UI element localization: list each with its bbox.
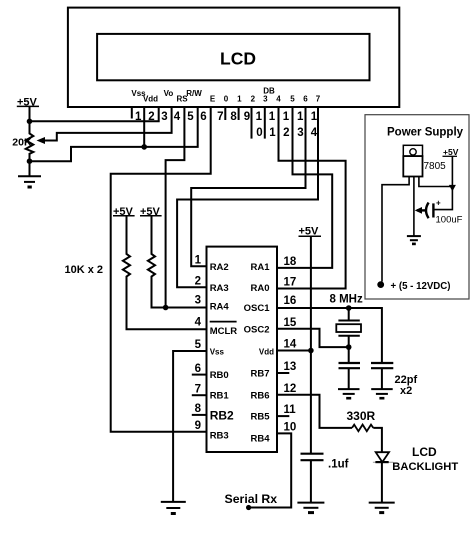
svg-text:4: 4 [174,111,181,123]
svg-text:3: 3 [297,127,303,139]
svg-text:RA4: RA4 [210,302,230,313]
wire RB6 pin12 to resistor 330R [277,395,352,428]
ground pot [18,176,41,187]
node RA4 junction [163,305,169,311]
LCD module outer box [68,8,399,107]
svg-text:Vdd: Vdd [259,348,274,357]
node crystal bottom junction [346,344,352,350]
ground C1 [338,389,360,398]
LCD pin numbers row1 [135,111,318,123]
svg-text:6: 6 [200,111,206,123]
wire 7805 output to +5V [419,157,453,210]
MCLR overbar [210,321,237,323]
LCD pin header separators [132,107,265,139]
wire +5V rail [310,236,312,454]
svg-text:Serial Rx: Serial Rx [225,492,278,506]
input terminal bullet [377,281,384,288]
wire pot bottom to ground [29,161,31,176]
wire 7805 ground lead [413,177,415,237]
+5V label pullup 2 [140,206,162,218]
svg-text:1: 1 [283,111,290,123]
svg-text:5: 5 [187,111,194,123]
svg-text:6: 6 [303,95,308,104]
ground 7805 [407,236,421,244]
svg-text:LCD: LCD [220,48,256,68]
svg-text:10K x 2: 10K x 2 [65,264,104,276]
svg-text:11: 11 [284,404,297,416]
node Vss junction [141,144,147,150]
ground C2 [371,389,393,398]
22pf x2 value label [395,374,418,397]
wire OSC2 pin15 to crystal bottom [277,329,349,347]
PIC chip U1 [207,247,278,452]
svg-text:RB3: RB3 [210,431,229,442]
svg-text:Vo: Vo [164,89,174,98]
svg-text:12: 12 [284,383,297,395]
wire OSC1 pin16 [277,308,382,363]
svg-text:20K: 20K [12,136,32,148]
svg-text:R/W: R/W [186,89,202,98]
svg-text:x2: x2 [400,385,412,397]
svg-text:LCD: LCD [412,445,437,459]
svg-text:8: 8 [195,403,202,415]
svg-text:4: 4 [311,127,318,139]
svg-text:1: 1 [195,255,202,267]
svg-text:RB2: RB2 [210,409,234,423]
wire pot bottom to LCD pin1 Vss and pin5 R/W [30,107,198,161]
wire +5V to pot top [29,107,31,121]
node Vdd junction [308,348,314,354]
svg-text:Power Supply: Power Supply [387,127,464,139]
wire 7805 input lead [382,177,409,282]
svg-text:RB7: RB7 [250,369,269,380]
capacitor 22pf C1 [339,347,361,389]
svg-text:1: 1 [256,111,263,123]
svg-text:1: 1 [269,127,276,139]
chip left pin labels [210,262,238,442]
ground C3 [297,503,324,513]
wire Vss pin5 to ground [173,351,206,502]
pin 7 stub [192,394,207,396]
svg-text:3: 3 [161,111,167,123]
svg-text:RB6: RB6 [250,391,269,402]
svg-text:18: 18 [284,256,297,268]
svg-text:1: 1 [297,111,304,123]
chip right pin labels [244,262,274,445]
svg-text:7: 7 [217,111,223,123]
LCD display inner box [97,34,369,80]
svg-text:3: 3 [195,295,201,307]
wire LCD pin14 DB7 to chip RA3 [177,107,318,287]
LCD BACKLIGHT label [392,445,458,473]
svg-text:2: 2 [195,276,201,288]
wire LCD pin4 RS to chip RA4 [166,107,185,308]
svg-text:1: 1 [237,95,242,104]
node crystal top junction [346,305,352,311]
svg-text:0: 0 [224,95,229,104]
svg-text:OSC1: OSC1 [244,303,271,314]
capacitor .1uf C3 [301,454,349,503]
pin 8 stub [192,414,207,416]
svg-text:13: 13 [284,361,297,373]
wire pot top to LCD pin2 Vdd [30,107,159,121]
svg-text:E: E [210,95,216,104]
pin 11 stub [277,415,289,417]
svg-text:+ (5 - 12VDC): + (5 - 12VDC) [391,281,451,292]
svg-text:4: 4 [195,317,202,329]
svg-text:+5V: +5V [443,147,459,157]
wire 330R to LED [373,428,382,452]
LCD pin numbers row2 [256,127,318,139]
svg-text:RB4: RB4 [250,434,270,445]
svg-text:RB0: RB0 [210,370,229,381]
ground Vss [161,502,186,514]
svg-text:.1uf: .1uf [328,459,349,471]
svg-text:9: 9 [195,420,201,432]
svg-text:8 MHz: 8 MHz [330,293,363,305]
wire RA4 junction to chip pin3 [166,307,207,309]
svg-text:3: 3 [263,95,268,104]
pin 6 stub [192,374,207,376]
svg-text:330R: 330R [347,409,376,423]
capacitor 22pf C2 [371,363,393,389]
svg-text:16: 16 [284,295,297,307]
wire RB4 pin10 to Serial Rx [249,433,292,507]
svg-text:Vdd: Vdd [143,95,158,104]
svg-text:RA1: RA1 [250,262,270,273]
svg-text:BACKLIGHT: BACKLIGHT [392,461,458,473]
ground LED [369,503,395,513]
svg-text:RA3: RA3 [210,283,229,294]
svg-text:15: 15 [284,317,297,329]
wire LCD pin12 DB5 to chip RA1 [277,107,332,268]
wire LCD pin11 DB4 to chip RA0 [277,107,346,289]
svg-text:RA2: RA2 [210,262,229,273]
node pot bottom junction [27,158,33,164]
svg-text:100uF: 100uF [436,215,463,226]
wire LCD pin13 DB6 to chip RA2 [191,107,305,266]
svg-text:8: 8 [230,111,237,123]
svg-text:RB5: RB5 [250,412,270,423]
pin 13 stub [277,372,289,374]
svg-text:OSC2: OSC2 [244,325,270,336]
wire LCD pin6 E to chip RB3 [111,107,211,432]
svg-text:Vss: Vss [210,348,225,357]
svg-text:1: 1 [311,111,318,123]
svg-text:RA0: RA0 [250,283,269,294]
node Serial Rx terminal [246,505,251,510]
potentiometer 20K [12,121,33,161]
resistor 10K pullup R1 to MCLR [123,216,207,329]
node pot top junction [27,119,33,125]
svg-text:5: 5 [290,95,295,104]
+5V label power supply [443,147,459,157]
svg-text:2: 2 [283,127,289,139]
chip right pin numbers [284,256,297,434]
capacitor 100uF C4 [415,199,463,226]
Power Supply box [365,115,469,299]
svg-text:6: 6 [195,363,201,375]
svg-text:7: 7 [195,384,201,396]
svg-text:9: 9 [244,111,250,123]
svg-text:4: 4 [276,95,281,104]
node 7805 output junction [449,185,456,192]
+5V label top left [17,97,39,109]
+5V label at Vdd rail [299,226,322,238]
svg-text:10: 10 [284,422,297,434]
wire LCD pin1 Vss drop [143,107,145,147]
svg-text:5: 5 [195,339,202,351]
wire Vdd pin14 stub [277,350,311,352]
svg-text:17: 17 [284,277,297,289]
crystal X1 8MHz [336,308,361,347]
chip left pin numbers [195,255,202,433]
LED D1 backlight [373,452,393,502]
svg-text:+: + [436,199,441,208]
resistor 330R [347,409,376,431]
LCD pin name labels [131,87,320,104]
svg-text:7: 7 [316,95,321,104]
svg-text:7805: 7805 [424,161,447,172]
svg-text:1: 1 [269,111,276,123]
svg-text:MCLR: MCLR [210,326,238,337]
svg-text:14: 14 [284,339,297,351]
svg-text:RB1: RB1 [210,391,230,402]
svg-text:2: 2 [251,95,256,104]
pot wiper arrow to LCD pin3 Vo [37,107,172,144]
resistor 10K pullup R2 to RA4 [148,216,166,308]
+5V label pullup 1 [113,206,135,218]
regulator 7805 U2 [403,145,446,176]
svg-text:0: 0 [256,127,262,139]
